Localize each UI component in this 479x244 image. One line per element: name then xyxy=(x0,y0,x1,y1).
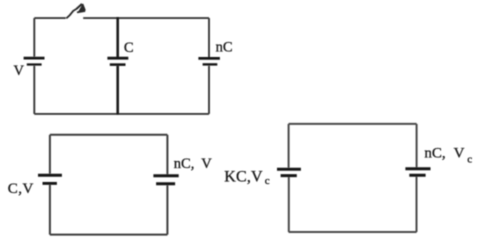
svg-text:c: c xyxy=(265,175,270,187)
svg-text:nC,: nC, xyxy=(174,156,195,172)
svg-text:V: V xyxy=(201,156,212,172)
svg-text:KC,V: KC,V xyxy=(224,169,263,186)
svg-text:V: V xyxy=(14,63,25,79)
svg-text:C: C xyxy=(124,40,134,56)
svg-text:C,V: C,V xyxy=(8,181,34,197)
svg-text:V: V xyxy=(454,145,465,161)
svg-text:nC: nC xyxy=(216,39,233,55)
svg-text:nC,: nC, xyxy=(424,145,445,161)
svg-text:c: c xyxy=(467,154,472,166)
